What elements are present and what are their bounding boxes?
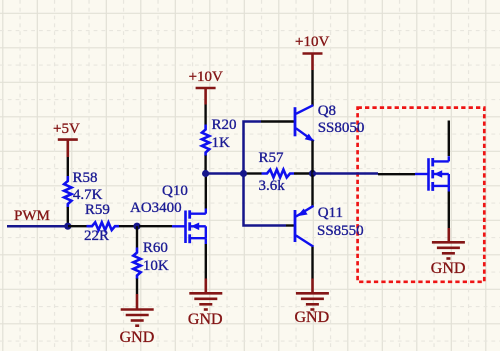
power label +10V (Q8) [295,35,329,50]
wire to Q8 base [244,122,295,174]
resistor R60 [133,226,140,294]
ground below Q10 [189,279,222,310]
ground below Q11 [296,279,329,310]
power +10V right [303,54,323,71]
junction R59/R60/Q10 gate [133,223,140,230]
wire bus R20 junction to R57 [206,172,244,175]
junction PWM/R58/R59 [64,223,71,230]
wire Q10 drain [205,174,207,209]
wire Q10 source [205,244,207,279]
value SS8050 of Q8 [318,121,365,136]
transistor Q8 SS8050 NPN [295,105,314,141]
ground label GND (ext MOSFET) [431,261,466,277]
designator R58 [73,171,98,186]
wire to Q10 gate [139,225,172,227]
ground in box [432,228,465,259]
wire external MOSFET source [448,192,450,229]
value 22R of R59 [84,229,109,244]
value 10K of R60 [143,259,169,274]
junction R20/Q10 drain/bus [202,170,209,177]
transistor Q11 SS8550 PNP [295,206,314,247]
value 4.7K of R58 [73,188,103,203]
wire junction to Q11 emitter [311,174,313,207]
value 1K of R20 [212,136,230,151]
designator R60 [143,241,168,256]
junction R57 right / emitters [309,170,316,177]
designator R59 [85,203,110,218]
resistor R59 [68,222,138,230]
junction bases/R57 left [240,170,247,177]
wire Q11 collector [311,247,313,279]
net label PWM [14,209,50,224]
resistor R20 [202,105,209,174]
value AO3400 of Q10 [130,201,182,216]
transistor external N-MOSFET [415,156,449,192]
transistor Q10 AO3400 N-MOSFET [172,209,206,245]
red dashed selection box [358,108,485,282]
power +10V left [196,88,216,105]
ground below R60 [121,294,154,326]
designator R20 [212,118,237,133]
resistor R57 [247,170,313,178]
wire to Q11 base [244,174,295,226]
wire Q8 collector [311,70,313,106]
value SS8550 of Q11 [317,224,364,239]
resistor R58 [64,157,71,226]
designator Q8 [318,104,336,119]
ground label GND (Q10) [188,312,223,328]
ground label GND (R60) [120,330,155,346]
power label +10V (R20) [189,70,223,85]
designator R57 [259,151,284,166]
designator Q11 [318,206,343,221]
wire bus to external MOSFET gate [313,172,416,175]
power label +5V [53,122,80,137]
power +5V [58,140,78,157]
ground label GND (Q11) [295,310,330,326]
designator Q10 [162,184,188,199]
wire external MOSFET drain [448,121,450,157]
wire Q8 emitter to junction [311,141,313,174]
value 3.6k of R57 [259,179,285,194]
wire PWM net [7,225,68,228]
